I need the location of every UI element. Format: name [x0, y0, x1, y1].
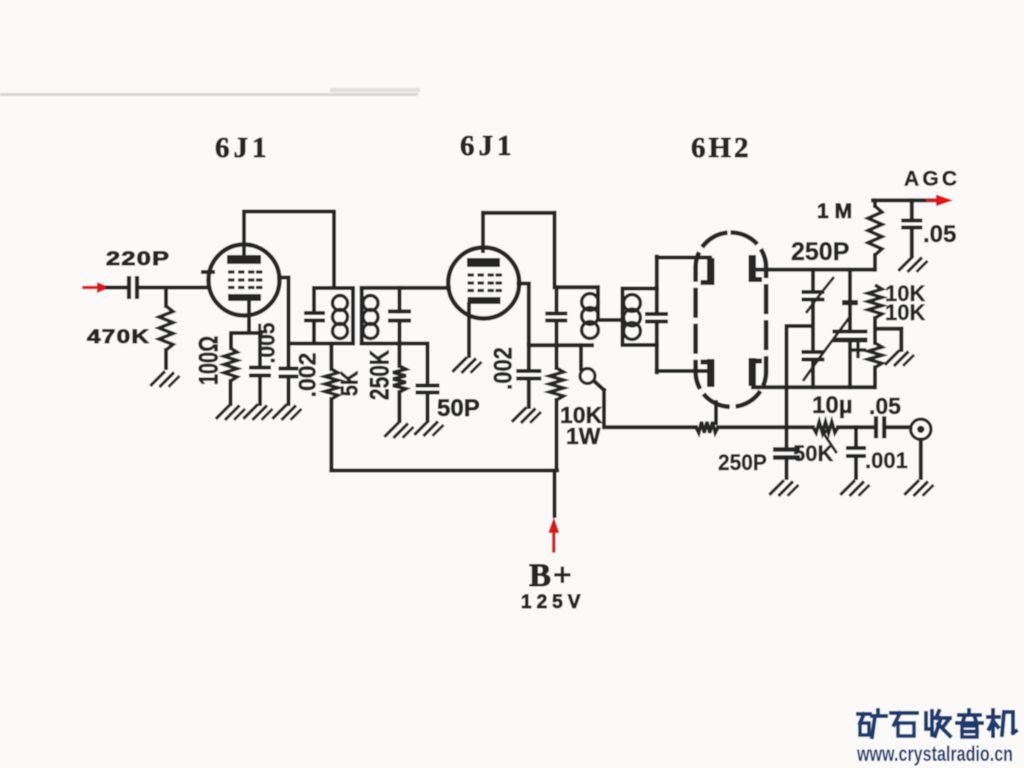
svg-text:.002: .002: [294, 353, 321, 398]
svg-text:100Ω: 100Ω: [194, 336, 223, 385]
svg-text:50P: 50P: [437, 395, 480, 422]
svg-text:10µ: 10µ: [812, 392, 853, 419]
svg-text:.001: .001: [865, 448, 908, 473]
svg-text:470K: 470K: [87, 326, 150, 348]
svg-text:10K: 10K: [885, 300, 925, 325]
svg-text:50K: 50K: [793, 441, 833, 466]
svg-text:250P: 250P: [718, 451, 767, 476]
svg-text:.005: .005: [253, 323, 279, 364]
svg-text:1W: 1W: [566, 423, 601, 449]
svg-text:AGC: AGC: [904, 168, 960, 191]
svg-text:6J1: 6J1: [460, 130, 516, 162]
svg-text:1M: 1M: [817, 200, 858, 223]
svg-text:6J1: 6J1: [215, 132, 271, 164]
svg-text:125V: 125V: [521, 592, 585, 613]
svg-text:6H2: 6H2: [691, 132, 752, 164]
svg-text:250K: 250K: [365, 349, 395, 400]
svg-text:5K: 5K: [336, 371, 363, 397]
svg-text:220P: 220P: [106, 248, 170, 269]
svg-text:.05: .05: [923, 221, 956, 248]
svg-text:.002: .002: [490, 347, 518, 390]
svg-text:B+: B+: [529, 558, 574, 594]
svg-text:www.crystalradio.cn: www.crystalradio.cn: [856, 743, 1013, 766]
svg-text:250P: 250P: [791, 238, 849, 266]
svg-text:.05: .05: [869, 393, 901, 419]
